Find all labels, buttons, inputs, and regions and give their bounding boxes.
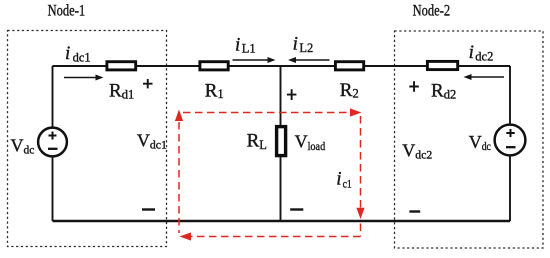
svg-text:dc1: dc1 — [73, 51, 91, 65]
voltage source V_dc left: minus mark — [48, 148, 58, 150]
red loop: down arrowhead (at bottom bus) — [356, 208, 364, 219]
Node-1 dotted boundary box — [8, 31, 167, 247]
red loop: right vertical segment (below bus) — [360, 224, 362, 237]
current arrow i_L2 — [295, 59, 330, 61]
polarity - (V_dc1, bottom left) — [142, 208, 155, 210]
current arrow i_L1 — [233, 59, 269, 61]
current arrow i_dc2 — [471, 76, 505, 78]
wire: center vertical branch through load — [280, 66, 282, 221]
svg-text:i: i — [336, 168, 341, 189]
voltage source V_dc right: minus mark — [506, 146, 516, 148]
resistor R_d1 body — [107, 62, 136, 70]
svg-text:i: i — [293, 34, 298, 55]
resistor R1 body — [200, 62, 228, 70]
svg-text:R1: R1 — [205, 81, 224, 102]
voltage source V_dc right: plus mark — [506, 129, 514, 137]
Node-2 dotted boundary box — [395, 31, 544, 248]
wire: left vertical from source V_dc down to bottom bus — [52, 157, 54, 222]
wire: right vertical from top bus down to source V_dc (right) — [509, 66, 511, 125]
svg-text:Vdc: Vdc — [469, 132, 491, 153]
resistor R2 body — [335, 62, 363, 70]
svg-text:dc2: dc2 — [475, 50, 493, 64]
svg-text:Node-2: Node-2 — [413, 2, 451, 19]
polarity + (V_dc2, left of R_d2) — [409, 81, 419, 92]
red loop: bottom horizontal segment — [191, 236, 361, 238]
red loop: top horizontal segment — [183, 112, 349, 114]
wire: bottom bus — [53, 220, 511, 222]
resistor R_d2 body — [427, 61, 457, 69]
svg-text:R2: R2 — [340, 80, 359, 101]
red loop: left arrowhead (bottom-left) — [180, 232, 192, 240]
svg-text:Vload: Vload — [295, 132, 326, 153]
svg-text:L1: L1 — [242, 42, 256, 56]
svg-text:i: i — [65, 43, 70, 64]
svg-text:Rd2: Rd2 — [431, 80, 456, 101]
voltage source V_dc right: circle — [495, 125, 526, 156]
svg-text:i: i — [469, 42, 474, 63]
polarity - (V_dc2, bottom) — [409, 210, 420, 212]
red loop: right vertical segment (upper) — [360, 116, 362, 208]
svg-text:Rd1: Rd1 — [109, 80, 134, 101]
wire: top bus from left source to right source — [53, 65, 511, 67]
svg-text:RL: RL — [247, 130, 267, 151]
resistor R_L body (vertical, load) — [277, 127, 286, 156]
current arrow i_dc1 — [64, 77, 97, 79]
red loop: left vertical segment — [178, 122, 180, 233]
voltage source V_dc left: plus mark — [49, 132, 57, 140]
voltage source V_dc left: circle — [38, 128, 67, 157]
svg-text:Vdc: Vdc — [11, 135, 35, 156]
svg-text:Vdc1: Vdc1 — [137, 130, 167, 151]
svg-text:Node-1: Node-1 — [48, 2, 86, 19]
polarity - (V_load, below R_L) — [290, 208, 303, 210]
wire: right vertical from source V_dc (right) down to bottom bus — [509, 156, 511, 221]
red loop: right arrowhead (top-right) — [350, 108, 362, 116]
svg-text:Vdc2: Vdc2 — [402, 140, 432, 161]
polarity + (V_load, above R_L) — [287, 89, 297, 100]
polarity + (V_dc1, right of R_d1) — [143, 79, 153, 88]
svg-text:i: i — [235, 34, 240, 55]
svg-text:c1: c1 — [343, 176, 352, 190]
red loop: up arrowhead (top-left) — [175, 110, 183, 122]
svg-text:L2: L2 — [299, 41, 313, 55]
wire: left vertical from top bus down to source V_dc — [52, 66, 54, 128]
